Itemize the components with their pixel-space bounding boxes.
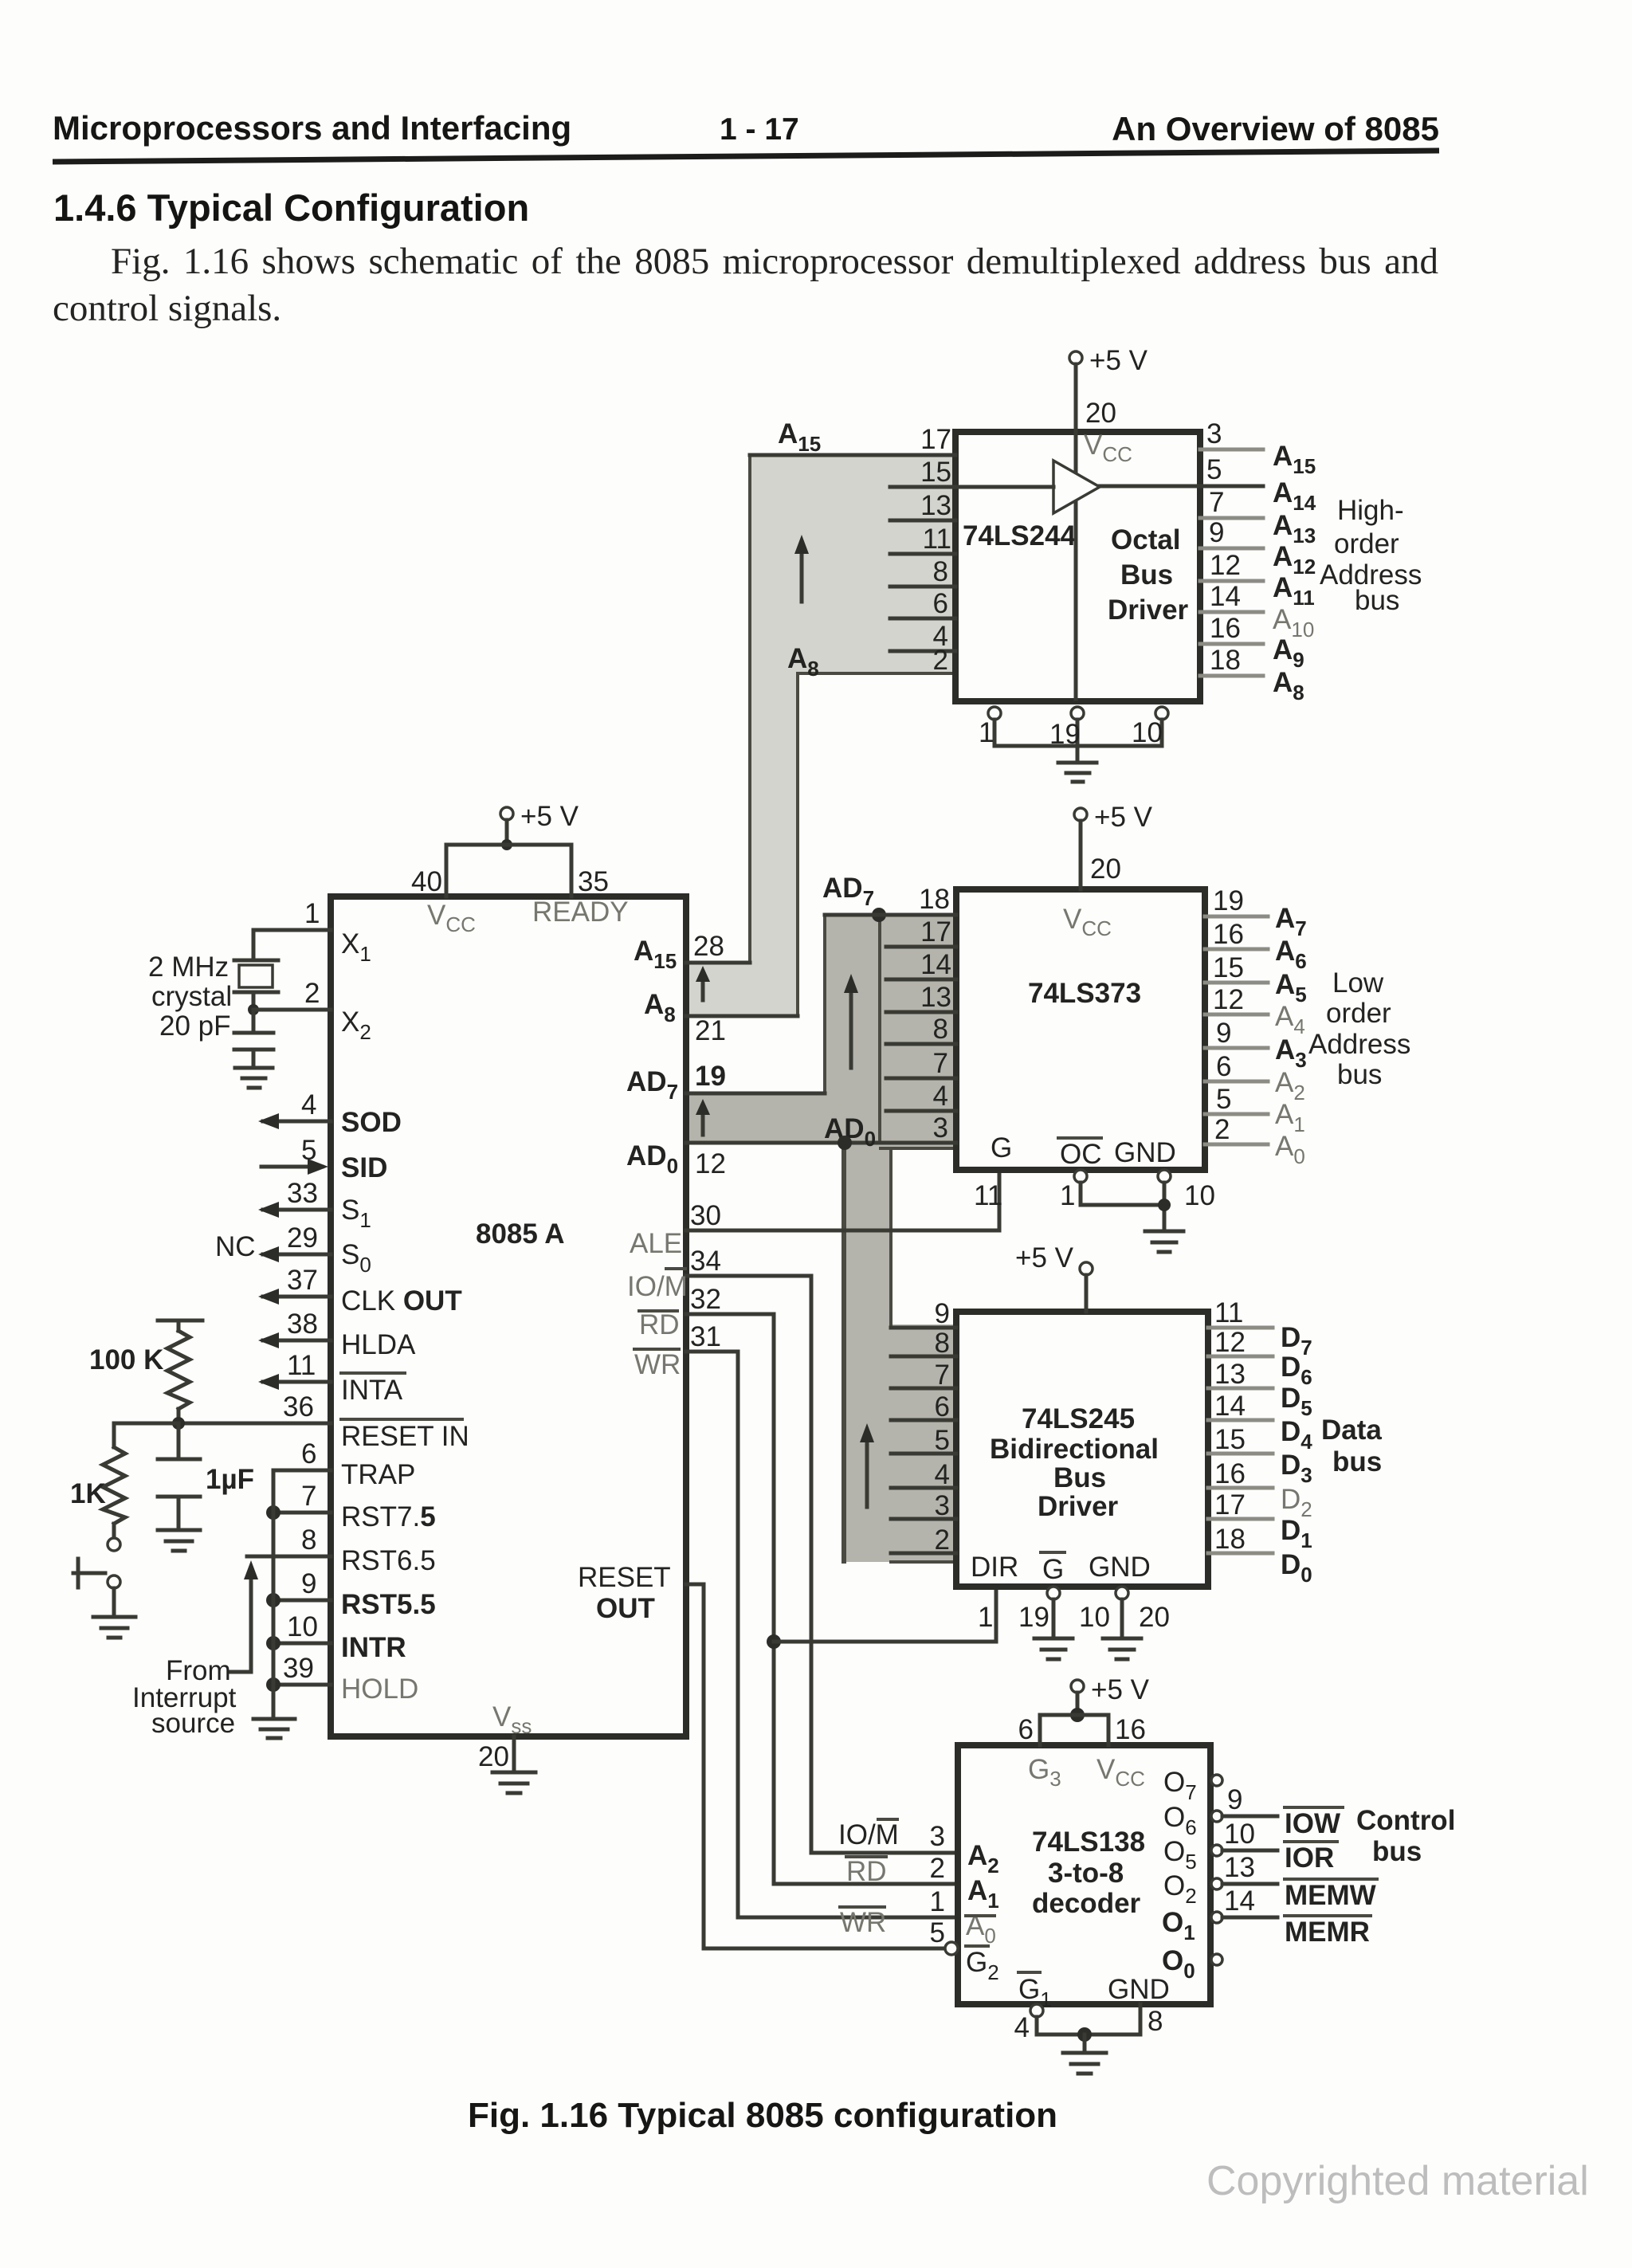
pin 10 INTR (266, 1611, 406, 1663)
svg-text:Driver: Driver (1038, 1491, 1119, 1522)
pin 29 S0 (215, 1222, 371, 1277)
label high-order address bus (1320, 495, 1422, 616)
pin 1 X1 (253, 898, 371, 966)
pin 38 HLDA (258, 1309, 416, 1360)
svg-text:38: 38 (287, 1309, 318, 1340)
svg-text:9: 9 (301, 1568, 316, 1599)
74LS245 left pin 7 (891, 1360, 956, 1391)
svg-text:bus: bus (1355, 585, 1399, 616)
74LS373 left pin 8 (886, 1014, 956, 1045)
svg-text:6: 6 (933, 588, 948, 619)
svg-text:A4: A4 (1275, 1001, 1305, 1038)
svg-text:7: 7 (1209, 487, 1224, 518)
svg-text:7: 7 (301, 1481, 316, 1512)
svg-text:74LS245: 74LS245 (1022, 1403, 1135, 1434)
svg-text:NC: NC (215, 1231, 256, 1262)
paragraph line 2 (53, 287, 281, 330)
svg-text:4: 4 (933, 1081, 948, 1112)
74LS244 right pin 9 / A12 (1200, 517, 1316, 579)
pin 12 AD0 (626, 1140, 891, 1179)
node AD7 junction (822, 873, 886, 922)
74LS244 right pin 5 / A14 (1206, 454, 1316, 515)
pin 30 ALE (wire to 74LS373 G pin 11) (630, 1170, 1002, 1259)
svg-text:4: 4 (935, 1459, 950, 1490)
from interrupt source arrow into RST6.5 (132, 1560, 258, 1739)
svg-text:19: 19 (1213, 885, 1244, 916)
svg-text:19: 19 (1018, 1602, 1049, 1633)
74LS245 left pin 9 (891, 1298, 956, 1329)
svg-text:A15: A15 (1273, 441, 1316, 478)
svg-text:13: 13 (1224, 1852, 1255, 1883)
74LS373 GND pin 10 with ground (1114, 1137, 1215, 1252)
svg-text:crystal: crystal (151, 981, 232, 1012)
svg-text:A14: A14 (1273, 477, 1316, 515)
74LS373 left pin 7 (886, 1048, 956, 1079)
svg-text:7: 7 (935, 1360, 950, 1391)
svg-text:RD: RD (639, 1309, 680, 1340)
74LS244 bottom pins 1,19,10 and ground (979, 707, 1168, 782)
svg-text:36: 36 (283, 1391, 314, 1422)
svg-text:A3: A3 (1275, 1034, 1307, 1072)
svg-text:G: G (991, 1132, 1012, 1163)
header left (53, 109, 571, 147)
svg-text:AD7: AD7 (822, 873, 874, 910)
74LS245 left pin 3 (891, 1490, 956, 1521)
74LS138 output O0 (1162, 1945, 1222, 1983)
74LS138 G1 pin 4 (active low) with ground (1014, 1972, 1163, 2074)
svg-text:G: G (1042, 1554, 1064, 1585)
svg-text:1: 1 (978, 1602, 993, 1633)
+5V supply at 74LS138 pins 6,16 (1018, 1674, 1150, 1745)
svg-text:GND: GND (1108, 1974, 1170, 2005)
svg-text:8: 8 (301, 1524, 316, 1556)
svg-text:1: 1 (304, 898, 320, 929)
74LS245 left pin 6 (891, 1391, 956, 1422)
svg-text:5: 5 (1206, 454, 1222, 485)
svg-text:14: 14 (1214, 1391, 1246, 1422)
svg-text:MEMR: MEMR (1285, 1917, 1370, 1948)
svg-text:10: 10 (1184, 1180, 1215, 1211)
svg-text:Data: Data (1321, 1415, 1382, 1446)
svg-text:1: 1 (979, 717, 994, 748)
svg-text:IO/M: IO/M (627, 1271, 688, 1302)
svg-text:17: 17 (920, 424, 951, 455)
svg-text:bus: bus (1332, 1446, 1382, 1477)
svg-text:2: 2 (935, 1524, 950, 1556)
pin 11 INTA (active low) (258, 1350, 405, 1406)
74LS138 output O7 (1163, 1767, 1222, 1804)
svg-text:1: 1 (1060, 1180, 1075, 1211)
svg-text:1µF: 1µF (206, 1464, 254, 1495)
svg-text:1: 1 (930, 1886, 945, 1917)
pin 2 X2 (248, 978, 371, 1044)
svg-text:CLK OUT: CLK OUT (341, 1285, 462, 1316)
IC 74LS244 octal bus driver (955, 432, 1200, 701)
svg-text:18: 18 (919, 884, 950, 915)
74LS244 right pin 16 / A9 (1200, 613, 1304, 672)
74LS245 right pin 11 / D7 (1208, 1297, 1312, 1360)
svg-text:21: 21 (695, 1015, 726, 1046)
svg-text:RST5.5: RST5.5 (341, 1589, 436, 1620)
svg-text:3: 3 (935, 1490, 950, 1521)
74LS244 left pin 2 (933, 645, 948, 676)
pin 36 RESET IN (active low) (178, 1391, 469, 1452)
svg-text:11: 11 (974, 1180, 1002, 1211)
74LS373 right pin 9 / A3 (1205, 1018, 1307, 1072)
svg-text:MEMW: MEMW (1285, 1880, 1376, 1911)
74LS245 right pin 15 / D3 (1208, 1424, 1312, 1487)
svg-text:15: 15 (1213, 952, 1244, 983)
svg-text:Bus: Bus (1053, 1462, 1106, 1493)
svg-text:SID: SID (341, 1152, 387, 1183)
svg-text:8: 8 (933, 1014, 948, 1045)
pin 9 RST5.5 (266, 1568, 436, 1620)
74LS138 pin 2 input A1 (846, 1853, 999, 1913)
74LS373 right pin 12 / A4 (1205, 984, 1305, 1038)
svg-text:3: 3 (1206, 418, 1222, 449)
svg-text:order: order (1334, 528, 1399, 559)
pin 19 AD7 (626, 1061, 825, 1104)
pin 6 TRAP (273, 1438, 415, 1490)
bus arrow up (AD bus near 74LS245) (860, 1423, 874, 1507)
svg-text:HOLD: HOLD (341, 1674, 418, 1705)
header rule (53, 151, 1439, 162)
svg-text:10: 10 (1224, 1819, 1255, 1850)
74LS244 left pin 8 (890, 556, 955, 587)
bus arrow up (AD bus near 8085) (696, 1099, 710, 1135)
svg-text:INTA: INTA (341, 1375, 403, 1406)
74LS245 right pin 13 / D5 (1208, 1359, 1312, 1420)
74LS244 left pin 4 (890, 621, 955, 652)
+5V supply at 74LS245 (1015, 1242, 1093, 1312)
data/address AD bus (shaded region AD7..AD0) (686, 915, 956, 1562)
svg-text:10: 10 (1079, 1602, 1110, 1633)
svg-text:15: 15 (920, 457, 951, 488)
svg-text:20: 20 (1139, 1602, 1170, 1633)
pin 31 WR (wire to 74LS138 A0 pin 1) (634, 1321, 958, 1917)
ground (crystal cap) (235, 1068, 273, 1088)
svg-text:source: source (151, 1708, 235, 1739)
svg-text:8: 8 (1147, 2006, 1163, 2037)
svg-text:2: 2 (1214, 1114, 1230, 1145)
svg-text:6: 6 (1216, 1051, 1231, 1082)
svg-text:RESET: RESET (578, 1562, 671, 1593)
svg-text:35: 35 (578, 866, 609, 897)
svg-text:10: 10 (1132, 717, 1163, 748)
svg-text:bus: bus (1372, 1836, 1422, 1867)
svg-text:D3: D3 (1281, 1450, 1312, 1487)
svg-text:74LS138: 74LS138 (1032, 1827, 1145, 1858)
74LS138 pin 1 input A0 (840, 1886, 996, 1948)
svg-text:Bidirectional: Bidirectional (990, 1434, 1159, 1465)
74LS373 OC pin (active low) with ground (1058, 1138, 1164, 1211)
pin 4 SOD (258, 1089, 402, 1138)
svg-text:37: 37 (287, 1265, 318, 1296)
svg-text:32: 32 (690, 1284, 721, 1315)
svg-text:A15: A15 (778, 418, 821, 456)
label control bus (1356, 1805, 1455, 1867)
svg-text:17: 17 (1214, 1489, 1246, 1521)
74LS245 left pin 2 (891, 1524, 956, 1556)
74LS373 right pin 2 / A0 (1205, 1114, 1305, 1168)
svg-text:39: 39 (283, 1653, 314, 1684)
pin 20 Vss ground (478, 1701, 535, 1793)
svg-text:20: 20 (1085, 398, 1116, 429)
pin 34 IO/M (wire to 74LS138 A2 pin 3) (627, 1246, 958, 1853)
pin 5 SID (261, 1135, 387, 1183)
pin 7 RST7.5 (266, 1481, 436, 1532)
+5V supply at 74LS244 pin 20 (1069, 345, 1148, 699)
svg-text:28: 28 (693, 931, 724, 962)
svg-text:WR: WR (634, 1349, 681, 1380)
svg-text:7: 7 (933, 1048, 948, 1079)
svg-text:2: 2 (930, 1853, 945, 1884)
svg-text:IOW: IOW (1285, 1808, 1340, 1839)
svg-text:14: 14 (1224, 1885, 1255, 1917)
svg-text:9: 9 (935, 1298, 950, 1329)
svg-text:20: 20 (1090, 853, 1121, 885)
ground (push button) (93, 1617, 135, 1638)
+5V supply at 8085 (411, 801, 609, 897)
svg-text:Address: Address (1308, 1029, 1410, 1060)
svg-text:6: 6 (935, 1391, 950, 1422)
svg-text:IOR: IOR (1285, 1842, 1334, 1874)
svg-text:16: 16 (1115, 1714, 1146, 1745)
svg-text:20 pF: 20 pF (159, 1010, 231, 1042)
svg-text:9: 9 (1209, 517, 1224, 548)
svg-text:2: 2 (933, 645, 948, 676)
svg-text:11: 11 (287, 1350, 316, 1381)
ground (interrupt rail) (253, 1719, 295, 1738)
74LS138 output O1 / MEMR (1162, 1885, 1371, 1948)
svg-text:18: 18 (1210, 645, 1241, 676)
svg-text:74LS373: 74LS373 (1028, 978, 1141, 1009)
74LS245 right pin 12 / D6 (1208, 1327, 1312, 1389)
svg-text:ALE: ALE (630, 1228, 682, 1259)
paragraph line 1 (111, 240, 1438, 283)
74LS373 right pin 15 / A5 (1205, 952, 1307, 1006)
svg-text:11: 11 (1214, 1297, 1243, 1328)
svg-text:+5 V: +5 V (1015, 1242, 1074, 1273)
svg-text:RESET IN: RESET IN (341, 1421, 469, 1452)
svg-text:13: 13 (920, 982, 951, 1013)
74LS245 right pin 17 / D1 (1208, 1489, 1312, 1552)
svg-text:GND: GND (1089, 1552, 1151, 1583)
74LS373 right pin 6 / A2 (1205, 1051, 1305, 1105)
capacitor C1 1uF (158, 1423, 254, 1530)
74LS244 left pin 13 (890, 490, 955, 521)
74LS245 right pin 18 / D0 (1208, 1524, 1312, 1587)
svg-text:15: 15 (1214, 1424, 1246, 1455)
svg-text:Bus: Bus (1120, 559, 1173, 591)
IC 8085A microprocessor (331, 897, 686, 1736)
svg-text:12: 12 (695, 1148, 726, 1179)
svg-text:5: 5 (301, 1135, 316, 1166)
svg-text:A8: A8 (1273, 667, 1304, 704)
pin 32 RD (wire to 74LS138 A1 pin 2) (639, 1284, 958, 1884)
74LS138 output O5 / IOR (1163, 1819, 1337, 1874)
svg-text:9: 9 (1227, 1784, 1242, 1815)
junction node (reset network) (172, 1417, 185, 1430)
svg-text:+5 V: +5 V (1089, 345, 1148, 376)
svg-text:8: 8 (933, 556, 948, 587)
copyright notice (1206, 2157, 1589, 2205)
svg-text:A7: A7 (1275, 903, 1307, 940)
74LS245 left pin 5 (891, 1425, 956, 1456)
svg-text:Low: Low (1332, 967, 1384, 999)
svg-text:1K: 1K (70, 1478, 106, 1509)
label low order address bus (1308, 967, 1410, 1090)
74LS373 left pin 17 (886, 916, 956, 948)
svg-text:12: 12 (1213, 984, 1244, 1015)
svg-text:Control: Control (1356, 1805, 1455, 1836)
svg-text:8: 8 (935, 1328, 950, 1359)
svg-text:6: 6 (301, 1438, 316, 1469)
svg-text:3: 3 (930, 1821, 945, 1852)
svg-text:D4: D4 (1281, 1416, 1312, 1454)
74LS138 pin 5 enable G2 (active low) (930, 1917, 999, 1984)
svg-text:A0: A0 (1275, 1131, 1305, 1168)
74LS373 right pin 5 / A1 (1205, 1084, 1305, 1136)
svg-text:SOD: SOD (341, 1107, 402, 1138)
svg-text:WR: WR (840, 1907, 886, 1938)
svg-text:74LS244: 74LS244 (963, 520, 1077, 551)
svg-text:IO/M: IO/M (838, 1819, 899, 1850)
node AD0 junction (824, 1113, 876, 1151)
svg-text:31: 31 (690, 1321, 721, 1352)
svg-text:12: 12 (1210, 550, 1241, 581)
junction RD to DIR of 74LS245 (767, 1587, 996, 1649)
+5V supply at 74LS373 pin 20 (1063, 802, 1153, 940)
svg-text:GND: GND (1114, 1137, 1176, 1168)
svg-text:TRAP: TRAP (341, 1459, 415, 1490)
svg-text:OC: OC (1060, 1139, 1102, 1170)
74LS373 left pin 18 (825, 884, 956, 915)
IC 74LS138 3-to-8 decoder (958, 1745, 1210, 2004)
74LS244 left pin 15 (890, 457, 955, 488)
svg-text:100 K: 100 K (89, 1344, 163, 1375)
svg-text:16: 16 (1213, 919, 1244, 950)
74LS244 right pin 3 / A15 (1200, 418, 1316, 478)
74LS245 right pin 14 / D4 (1208, 1391, 1312, 1454)
pin 21 A8 (644, 989, 798, 1046)
svg-text:40: 40 (411, 866, 442, 897)
pin 8 RST6.5 (247, 1524, 436, 1576)
ground (1uF) (158, 1530, 200, 1551)
svg-text:19: 19 (695, 1061, 726, 1092)
figure caption (468, 2096, 1057, 2136)
svg-text:bus: bus (1337, 1059, 1382, 1090)
74LS138 output O6 / IOW (1163, 1784, 1343, 1839)
74LS245 left pin 4 (891, 1459, 956, 1490)
push button switch to ground (73, 1538, 120, 1617)
pin 39 HOLD (266, 1653, 418, 1705)
svg-text:14: 14 (920, 949, 951, 980)
svg-text:5: 5 (1216, 1084, 1231, 1115)
interrupt pull-down rail (272, 1470, 276, 1719)
svg-text:30: 30 (690, 1200, 721, 1231)
74LS244 left pin 11 (890, 524, 955, 555)
svg-text:33: 33 (287, 1178, 318, 1209)
svg-text:INTR: INTR (341, 1632, 406, 1663)
svg-text:3-to-8: 3-to-8 (1048, 1858, 1124, 1889)
pin 37 CLK OUT (258, 1265, 462, 1316)
74LS373 right pin 19 / A7 (1205, 885, 1307, 940)
svg-text:+5 V: +5 V (1091, 1674, 1150, 1705)
74LS244 right pin 7 / A13 (1200, 487, 1316, 547)
svg-text:5: 5 (935, 1425, 950, 1456)
svg-text:4: 4 (301, 1089, 316, 1120)
svg-text:2 MHz: 2 MHz (148, 952, 229, 983)
svg-text:order: order (1326, 998, 1391, 1029)
svg-text:18: 18 (1214, 1524, 1246, 1555)
74LS373 left pin 3 (886, 1112, 956, 1144)
74LS244 left pin 17 (750, 424, 955, 455)
svg-text:Driver: Driver (1108, 594, 1189, 626)
svg-text:OUT: OUT (596, 1593, 655, 1624)
IC 74LS245 bidirectional bus driver (956, 1312, 1208, 1587)
svg-text:Octal: Octal (1111, 524, 1181, 555)
svg-text:9: 9 (1216, 1018, 1231, 1049)
bus arrow up (high bus near 74LS244) (794, 535, 809, 602)
svg-text:+5 V: +5 V (520, 801, 579, 832)
RESET OUT pin (wire to 74LS138 G2 pin 5) (578, 1562, 947, 1948)
svg-text:+5 V: +5 V (1094, 802, 1153, 833)
svg-text:RST6.5: RST6.5 (341, 1545, 436, 1576)
74LS373 left pin 14 (886, 949, 956, 980)
resistor R2 1K (70, 1423, 178, 1537)
header page number (720, 112, 799, 147)
svg-text:DIR: DIR (971, 1552, 1018, 1583)
svg-text:13: 13 (920, 490, 951, 521)
74LS244 left pin 6 (890, 588, 955, 619)
pin 33 S1 (258, 1178, 371, 1232)
svg-text:17: 17 (920, 916, 951, 948)
74LS244 right pin 14 / A10 (1200, 581, 1314, 642)
svg-text:2: 2 (304, 978, 320, 1009)
svg-text:34: 34 (690, 1246, 721, 1277)
svg-text:A6: A6 (1275, 936, 1307, 973)
buffer symbol inside 74LS244 (955, 461, 1263, 513)
label data bus (1321, 1415, 1382, 1477)
svg-text:D0: D0 (1281, 1549, 1312, 1587)
svg-text:RD: RD (846, 1856, 887, 1887)
svg-text:6: 6 (1018, 1714, 1034, 1745)
bus arrow up (high bus near 8085) (696, 966, 710, 1000)
svg-text:RST7.5: RST7.5 (341, 1501, 436, 1532)
bus arrow up (AD bus vertical near 74LS373) (844, 974, 858, 1068)
74LS245 right pin 16 / D2 (1208, 1458, 1312, 1521)
crystal Y1 (2 MHz) (148, 930, 278, 1042)
svg-text:High-: High- (1337, 495, 1404, 526)
svg-text:29: 29 (287, 1222, 318, 1254)
IC 74LS373 latch (956, 889, 1205, 1170)
74LS373 left pin 13 (886, 982, 956, 1013)
74LS373 right pin 16 / A6 (1205, 919, 1307, 973)
74LS244 right pin 18 / A8 (1200, 645, 1304, 704)
svg-text:5: 5 (930, 1917, 945, 1948)
svg-text:13: 13 (1214, 1359, 1246, 1390)
svg-text:16: 16 (1214, 1458, 1246, 1489)
74LS373 left pin 4 (886, 1081, 956, 1112)
svg-text:10: 10 (287, 1611, 318, 1642)
svg-text:16: 16 (1210, 613, 1241, 644)
74LS245 left pin 8 (891, 1328, 956, 1359)
svg-text:3: 3 (933, 1112, 948, 1144)
svg-text:4: 4 (1014, 2012, 1030, 2043)
74LS138 output O2 / MEMW (1163, 1852, 1377, 1911)
section heading (53, 186, 529, 230)
